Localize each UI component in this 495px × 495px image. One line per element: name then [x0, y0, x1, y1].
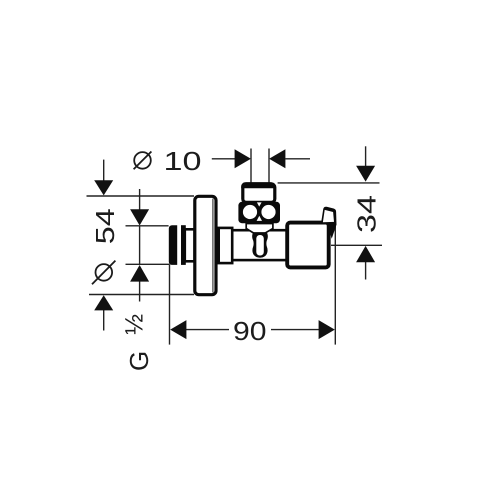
dim O10: right extension line down to cap [268, 149, 270, 183]
dim chain G1/2: stub above top arrow [139, 189, 141, 210]
dim 34: bottom extension line from handle axis [331, 244, 382, 246]
dim O10: left extension line down to cap [250, 149, 252, 183]
dim O10: left lead line [212, 158, 235, 160]
main pipe body [232, 230, 289, 260]
svg-text:½: ½ [121, 314, 149, 335]
svg-text:54: 54 [90, 208, 120, 244]
arrow left (90 left) [170, 320, 186, 339]
valve head shoulders trapezoid [246, 224, 273, 234]
dim chain O54: vertical line above top arrow [103, 160, 105, 181]
dim 90: dimension line left segment [186, 329, 229, 331]
flange inner edge line [212, 199, 214, 293]
left circle on head [243, 205, 257, 219]
arrow up (34 bottom) [356, 246, 375, 262]
svg-text:G: G [124, 351, 154, 371]
svg-text:90: 90 [233, 316, 267, 346]
dim 34: vertical line above top arrow [365, 146, 367, 166]
arrow down (G1/2 top) [130, 209, 149, 225]
arrow down (O54 top) [94, 180, 113, 195]
arrow right (90 right) [319, 320, 335, 339]
threaded inlet nipple (black end) [169, 225, 177, 265]
dim chain G1/2: top extension line [126, 225, 169, 227]
dim chain G1/2: tail below bottom arrow [139, 282, 141, 302]
dim chain G1/2: line through span [139, 226, 141, 264]
arrow right (O10 left) [235, 149, 251, 168]
right circle on head [261, 205, 275, 219]
dim 90: dimension line right segment [271, 329, 319, 331]
threaded inlet ridge stripe [181, 225, 186, 265]
dim chain O54: bottom extension line [89, 294, 194, 296]
arrow up (O54 bottom) [94, 295, 113, 310]
white notch top center of head [257, 202, 262, 206]
svg-text:34: 34 [352, 195, 382, 233]
arrow down (34 top) [356, 166, 375, 182]
pipe segment at flange [219, 228, 233, 263]
valve head cap top bar [241, 182, 275, 188]
valve stem body [252, 232, 268, 258]
dim chain O54: top extension line [87, 195, 195, 197]
white notch bottom center of head [257, 216, 262, 221]
dim chain G1/2: bottom extension line [126, 263, 170, 265]
dim O10: right lead line [285, 158, 310, 160]
svg-text:10: 10 [164, 146, 202, 176]
handle knob [287, 223, 329, 268]
dim chain O54: tail below bottom arrow [103, 310, 105, 331]
diameter symbol of "O 54" (rotated) [92, 261, 115, 285]
valve head cap box [243, 184, 275, 203]
diameter symbol of "O 10" [134, 152, 152, 170]
inlet hex section [185, 229, 195, 261]
dim 34: tail below bottom arrow [365, 262, 367, 280]
flange escutcheon [195, 196, 216, 294]
valve stem slot [256, 235, 264, 256]
arrow up (G1/2 bottom) [130, 265, 149, 282]
dim 90: right extension line [334, 224, 336, 345]
handle lever tab silhouette [321, 207, 337, 239]
handle lever white face [323, 210, 334, 222]
dim 34: top extension line from valve cap [278, 182, 380, 184]
dim 90: left extension line [169, 264, 171, 344]
arrow left (O10 right) [269, 149, 285, 168]
valve head middle block [238, 202, 280, 223]
